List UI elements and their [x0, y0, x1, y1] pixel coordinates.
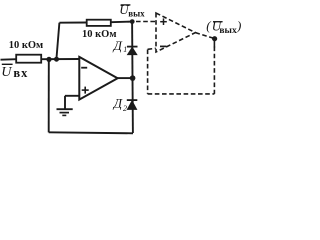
svg-text:): )	[236, 18, 241, 33]
wire op-amp output	[118, 77, 132, 79]
comparator minus sign	[160, 45, 166, 47]
node op-amp output dot	[130, 75, 136, 81]
svg-text:вых: вых	[219, 26, 237, 36]
comparator (dashed) triangle	[136, 13, 214, 94]
node summing junction dot A	[46, 57, 51, 62]
svg-text:(: (	[206, 18, 211, 33]
ground bar 3	[62, 114, 66, 116]
wire left drop from summing node	[48, 59, 50, 132]
node dot B feedback tap	[54, 57, 59, 62]
svg-text:10 кОм: 10 кОм	[82, 29, 117, 40]
resistor R1 10 kOm body	[16, 55, 41, 63]
wire dashed from output node down	[213, 47, 215, 94]
comparator plus sign	[160, 18, 167, 46]
ground stem	[64, 96, 66, 109]
wire op-amp noninverting input	[65, 95, 79, 97]
wire dashed comparator output	[195, 33, 214, 39]
svg-text:U: U	[1, 65, 12, 80]
wire top feedback left segment	[59, 22, 87, 24]
svg-text:вых: вых	[128, 8, 145, 18]
svg-text:вх: вх	[13, 66, 28, 80]
svg-text:2: 2	[123, 104, 127, 113]
wire riser from node up to feedback resistor	[56, 23, 59, 60]
wire bottom return	[49, 132, 133, 133]
op-amp U1 triangle	[79, 57, 117, 100]
wire R1 to op-amp inverting input	[41, 58, 79, 60]
wire R2 to Uout node	[111, 21, 132, 24]
wire dashed to minus input	[148, 48, 156, 49]
wire dashed bottom feedback	[148, 93, 215, 95]
svg-text:Д: Д	[112, 95, 123, 110]
node Uout top dot	[130, 19, 135, 24]
node comparator output dot	[212, 36, 217, 41]
wire vertical diode branch	[131, 22, 134, 133]
svg-text:10 кОм: 10 кОм	[9, 40, 44, 51]
ground bar 1	[57, 108, 73, 110]
wire dashed left feedback riser	[147, 50, 149, 94]
resistor R2 10 kOm body	[87, 20, 111, 26]
op-amp minus sign	[81, 67, 87, 69]
svg-text:1: 1	[123, 45, 127, 54]
svg-text:Д: Д	[112, 38, 123, 53]
ground bar 2	[60, 112, 70, 114]
wire dashed Uout node to comparator plus input	[136, 21, 156, 23]
op-amp plus sign	[82, 89, 89, 91]
wire input from left edge to resistor R1	[1, 58, 17, 61]
diode D1	[127, 47, 138, 55]
diode D2	[127, 100, 138, 109]
